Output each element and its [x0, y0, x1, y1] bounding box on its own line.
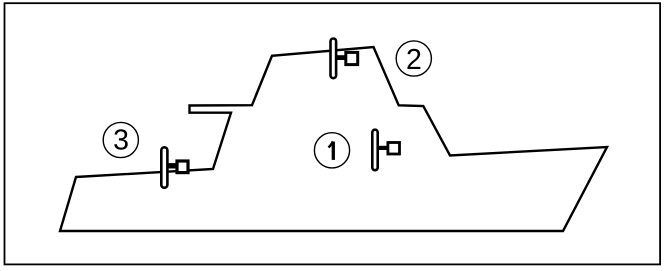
label circle 2: [396, 41, 431, 76]
label circle 3: [103, 122, 138, 157]
light symbol 1 connector: [379, 146, 388, 150]
masthead light symbol 2 box: [346, 52, 358, 64]
ship hull outline: [60, 47, 607, 231]
label digit 1: [332, 142, 335, 160]
svg-text:3: 3: [113, 125, 129, 157]
svg-text:2: 2: [406, 44, 422, 76]
light symbol 1 box: [388, 143, 400, 155]
light symbol 1 lens: [372, 130, 377, 171]
label circle 1: [314, 133, 349, 168]
masthead light symbol 2 lens: [331, 39, 337, 79]
light symbol 3 connector: [168, 163, 176, 168]
light symbol 3 lens: [161, 147, 167, 187]
light symbol 3 box: [177, 161, 188, 173]
masthead light symbol 2 connector: [337, 55, 345, 60]
